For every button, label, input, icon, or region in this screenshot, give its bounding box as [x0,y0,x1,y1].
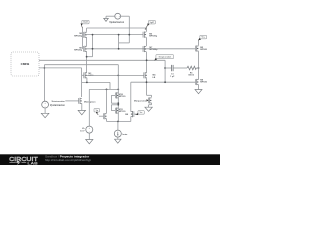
svg-text:1.5 V: 1.5 V [80,131,85,133]
svg-text:http://circuitlab.com/c/pk63rw: http://circuitlab.com/c/pk63rwm6yp [45,158,91,162]
svg-text:MPS30p: MPS30p [149,36,158,38]
svg-text:Vpolarizacion: Vpolarizacion [50,105,66,107]
svg-text:LAB: LAB [27,161,38,165]
svg-text:Vg12: Vg12 [83,22,88,24]
svg-text:Mbiaspaton: Mbiaspaton [84,100,96,103]
svg-text:MPS20: MPS20 [200,49,208,51]
svg-text:CMFB: CMFB [21,62,30,66]
svg-text:Sergio ondad: Sergio ondad [159,57,172,59]
svg-text:MPS30p: MPS30p [149,49,158,51]
svg-text:Vpolarizacion: Vpolarizacion [109,22,125,24]
svg-text:MP130: MP130 [119,111,126,113]
svg-text:MPS20p: MPS20p [74,35,83,37]
svg-text:500 Ω: 500 Ω [188,75,194,77]
svg-text:MPS30: MPS30 [200,82,208,84]
svg-text:MPS20p: MPS20p [74,50,83,52]
svg-text:Vo-: Vo- [140,112,143,114]
svg-text:-: - [116,15,117,18]
svg-text:Marquesina: Marquesina [134,100,147,102]
svg-text:MP120: MP120 [119,96,126,98]
svg-text:Vg67: Vg67 [150,22,155,24]
svg-text:Vbiastransistor: Vbiastransistor [51,100,65,103]
